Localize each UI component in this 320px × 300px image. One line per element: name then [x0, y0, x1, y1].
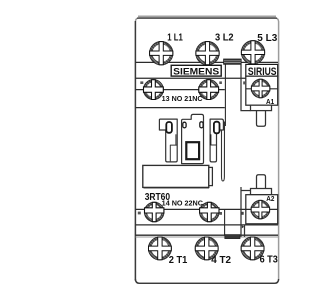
SIRIUS box: [246, 64, 278, 77]
svg-text:5 L3: 5 L3: [257, 33, 277, 44]
mechanism: center latch: [182, 114, 204, 163]
screw A2: [251, 200, 269, 218]
screw 21NC: [199, 80, 219, 100]
wire bottom block top: [136, 234, 279, 236]
screw 6T3: [241, 237, 264, 260]
svg-text:2 T1: 2 T1: [169, 255, 188, 266]
long pin tail right: [222, 122, 225, 181]
label plate tick: [209, 167, 213, 185]
svg-text:3RT60: 3RT60: [145, 192, 171, 203]
screw 2T1: [149, 237, 172, 260]
mechanism: right clip: [210, 119, 223, 162]
svg-text:SIEMENS: SIEMENS: [173, 66, 219, 76]
screw 4T2: [195, 237, 218, 260]
svg-text:6 T3: 6 T3: [260, 254, 279, 265]
wire horizontal band line top (y=62.4): [136, 61, 279, 63]
screw 13NO: [144, 80, 164, 100]
slot right in center latch: [200, 122, 203, 128]
contactor body outline: [135, 16, 278, 283]
A1 terminal box: [241, 64, 278, 126]
screw 5L3: [241, 41, 264, 64]
tiny mark near 14NO: [138, 212, 141, 215]
svg-text:A1: A1: [266, 99, 274, 106]
label plate: [143, 165, 209, 187]
A2 terminal box: [241, 175, 278, 237]
tiny mark near 22NC: [219, 212, 222, 215]
A2 plug stem: [257, 175, 266, 191]
svg-text:13 NO 21NC: 13 NO 21NC: [162, 96, 203, 103]
dark stripe bottom channel: [225, 235, 240, 239]
wire pole separator vertical lower: [224, 209, 226, 234]
tiny mark near A2: [241, 212, 243, 215]
A1 plug stem: [257, 111, 266, 127]
screw 22NC: [200, 202, 219, 221]
screw 14NO: [145, 202, 164, 221]
svg-text:3 L2: 3 L2: [215, 32, 234, 43]
A2 flange: [251, 189, 272, 195]
svg-text:1 L1: 1 L1: [167, 32, 183, 43]
hatched vent top channel: [224, 59, 242, 64]
wire horizontal band line bottom (y=78.3): [136, 77, 279, 79]
tiny mark near 21NC: [219, 81, 222, 84]
mechanism: left clip: [159, 119, 177, 162]
lower right box line: [244, 225, 246, 237]
tiny mark near 13NO: [140, 81, 143, 84]
wire row3 terminal line: [136, 208, 278, 210]
wire pole separator vertical upper: [224, 64, 226, 126]
screw 3L2: [196, 42, 219, 65]
screw 1L1: [150, 42, 173, 65]
square window in center latch: [186, 142, 199, 159]
wire row2 terminal line: [136, 89, 225, 91]
hole in left clip: [166, 122, 172, 133]
tiny mark lower right channel: [242, 225, 244, 228]
svg-text:A2: A2: [266, 196, 274, 203]
svg-text:4 T2: 4 T2: [211, 255, 231, 266]
SIEMENS logo box: [171, 65, 221, 76]
hole in right clip: [214, 122, 220, 134]
wire below row2: [136, 107, 225, 109]
wire below row3 / A2 box bottom: [136, 224, 279, 226]
A1 flange: [251, 105, 272, 110]
screw A1: [251, 79, 269, 97]
slot left in center latch: [183, 122, 186, 128]
tiny mark near A1: [243, 81, 245, 84]
